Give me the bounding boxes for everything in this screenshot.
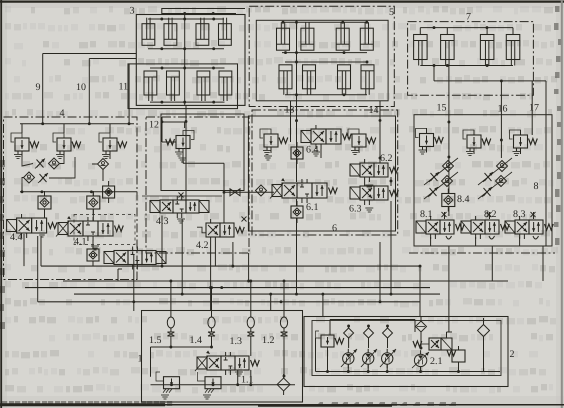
wire [49,157,75,178]
accumulator 1.4 [208,317,215,328]
x mark [442,212,447,217]
valve 6.1 [272,185,282,197]
wire [21,124,23,129]
bus wire [41,265,420,267]
wire [150,347,152,377]
bus wire [25,287,430,289]
valve 6.3 [350,187,360,199]
junction [447,156,450,159]
shutoff valve [230,189,235,196]
junction [295,21,298,24]
swash arrow [361,349,377,367]
svg-text:11: 11 [119,82,129,93]
wire [60,157,64,164]
cylinder box7 1 [414,35,428,60]
wire [89,58,136,60]
wire [21,183,23,192]
cylinder box3 bottom 3 [197,71,210,95]
power unit box 1 [142,311,303,403]
svg-text:17: 17 [529,103,539,114]
cylinder box3 top 1 [142,24,155,46]
manifold box 8 [414,115,552,246]
wire [424,158,458,185]
wire [433,66,435,81]
wire [148,48,224,50]
reducing valve 1b [205,377,221,389]
valve 4.2 [197,227,206,233]
check valve [442,176,453,187]
wire [330,319,415,321]
svg-text:4.2: 4.2 [196,240,209,251]
svg-text:1.5: 1.5 [149,335,162,346]
check valve [98,159,109,170]
wire [420,27,513,29]
wire [478,158,512,185]
tank symbol [91,245,99,247]
wire [448,317,450,333]
svg-text:8: 8 [534,181,539,192]
enclosure box 3 [136,15,245,106]
wire [162,141,176,143]
cylinder box3 top 2 [164,24,177,46]
x mark [242,217,247,222]
svg-text:4.1: 4.1 [74,237,87,248]
swash arrow [341,349,357,367]
cylinder box3 top 3 [196,24,209,46]
manifold box 8 outer [409,252,555,254]
filter [277,378,290,391]
wire [419,266,421,316]
enclosure box 3 top [162,9,245,15]
svg-text:4: 4 [60,108,65,119]
filter 2a [344,328,354,338]
valve 4.3 [150,201,160,213]
check valve sq [87,196,100,209]
wire [296,218,298,294]
wire [448,133,450,194]
relief valve left-1 [15,138,29,151]
check valve [497,161,508,172]
wire [285,94,367,96]
wire [170,281,172,317]
relief valve 8-3 [514,135,528,148]
wire [379,134,381,163]
wire [379,242,381,302]
tank symbol [365,207,373,209]
wire [270,294,272,311]
wire [512,28,514,35]
tank symbol [179,157,187,159]
wire [22,157,33,166]
accumulator 1.5 [167,317,174,328]
svg-text:1.3: 1.3 [230,336,243,347]
cylinder box5 bottom 1 [279,65,292,89]
manifold box 4 [4,117,138,280]
cylinder box5 top 4 [360,28,373,50]
check valve sq [291,206,303,218]
wire [23,234,25,266]
junction [183,12,186,15]
wire [419,28,421,35]
tank symbol [38,232,46,234]
wire [448,246,450,317]
wire [232,242,234,266]
wire [43,53,137,55]
cylinder box3 bottom 1 [144,71,157,95]
wire [128,64,130,124]
wire [329,320,331,336]
wire [150,101,225,103]
wire [185,105,187,200]
wire [348,325,350,327]
accumulator 1.3 [247,317,254,328]
pump 2a [343,353,354,364]
wire [531,81,533,135]
wire [20,123,134,125]
svg-text:6.1: 6.1 [306,202,319,213]
wire [117,269,119,281]
relief valve 8-2 [467,135,481,148]
cylinder box3 bottom 4 [219,71,232,95]
pump 2c [382,353,393,364]
pump 2.1 [414,354,426,366]
wire [322,294,324,316]
wire [109,157,111,159]
wire [214,242,216,266]
power unit box 2 [304,317,508,387]
wire [150,67,225,69]
wire [40,236,42,266]
wire [282,52,367,54]
bus wire [63,280,508,282]
svg-text:12: 12 [149,120,159,131]
check valve sq [103,186,115,198]
reducing valve 1a [164,377,180,389]
svg-text:8.1: 8.1 [420,209,433,220]
accumulator 1.2 [280,317,287,328]
svg-text:1: 1 [138,354,143,365]
cylinder box5 top 3 [336,28,349,50]
wire [92,240,94,244]
junction [40,190,43,193]
wire [296,101,298,182]
manifold box 6 [252,110,398,235]
power unit box 2 inner [312,321,501,376]
svg-text:15: 15 [437,103,447,114]
valve 8.2 [461,221,471,233]
swash arrow [412,352,429,368]
svg-text:6.3: 6.3 [349,204,362,215]
valve 6.2 [350,164,360,176]
check valve sq [38,196,51,209]
wire [446,332,448,338]
throttle valve [37,160,44,168]
junction [161,120,164,123]
wire [184,14,186,106]
wire [223,163,225,223]
svg-text:2: 2 [510,349,515,360]
tank hook [533,236,539,239]
spring box [452,350,465,362]
relief valve left-2 [57,138,71,151]
check valve [496,176,507,187]
wire [44,192,46,196]
enclosure box 5 [249,6,394,106]
filter 2b [364,328,374,338]
x mark [179,193,184,198]
svg-text:1.2: 1.2 [262,335,275,346]
wire [478,172,512,199]
relief valve 8-1 [420,134,434,147]
check valve sq [291,147,303,159]
valve row2 [104,252,114,264]
wire [224,191,274,193]
pump 2b [363,353,374,364]
wire [347,365,349,372]
wire [379,101,381,134]
tank hook [489,236,495,239]
bus wire [38,301,420,303]
wire [183,162,224,164]
bus wire [74,293,440,295]
cylinder box7 2 [441,35,455,60]
junction [433,26,436,29]
cylinder box7 4 [506,35,520,60]
wire [148,18,224,20]
check valve [256,185,267,196]
page frame [0,1,564,3]
filter 2c [383,328,393,338]
wire [430,237,432,246]
wire [210,242,212,311]
wire [434,80,546,82]
wire [444,212,446,219]
svg-text:16: 16 [498,104,508,115]
junction [41,122,44,125]
cylinder box7 3 [480,35,494,60]
wire [448,207,450,217]
manifold box 12 [146,117,249,253]
bus wire [20,191,137,193]
svg-text:6.4: 6.4 [306,145,319,156]
relief valve 6-right [352,134,366,147]
junction [161,265,164,268]
wire [500,135,502,158]
wire [283,281,285,317]
wire [151,346,212,348]
throttle valve [40,174,47,182]
x mark [531,212,536,217]
filter [416,321,427,332]
wire [542,246,544,281]
tank symbol [264,155,272,157]
tank symbol [312,151,320,153]
valve 4.4 [7,220,17,232]
wire [390,177,392,186]
wire [446,28,448,35]
wire [182,155,184,164]
valve 6.4 [301,131,311,143]
check valve 8.4 [442,194,455,207]
wire [420,65,513,67]
wire [181,220,183,295]
wire [170,343,172,347]
bus wire [151,384,296,386]
wire [161,216,163,267]
relief valve left-3 [103,138,117,151]
wire [426,128,428,133]
wire [44,209,46,218]
wire [424,172,458,199]
pilot line [142,195,222,197]
junction [223,191,226,194]
wire [237,370,239,385]
wire [248,253,250,281]
wire [161,117,163,142]
throttle valve [431,173,438,181]
valve 1.1 [197,357,207,369]
check valve [49,158,60,169]
wire [448,66,450,134]
junction [170,383,173,386]
wire [22,178,24,184]
svg-text:6.2: 6.2 [380,153,393,164]
wire [420,332,422,348]
wire [296,199,298,206]
junction [347,370,350,373]
manifold box 12 inner [161,114,244,191]
throttle valve [484,188,491,196]
tank hook [446,236,452,239]
svg-text:1.4: 1.4 [190,335,203,346]
wire [486,28,488,35]
relief valve 6-left [264,134,278,147]
junction [247,280,250,283]
manifold box 6 inner [248,116,395,231]
tank symbol [235,371,243,373]
wire [211,288,213,317]
check valve [443,161,454,172]
wire [320,149,322,158]
enclosure box 5 inner [256,20,388,101]
svg-text:5: 5 [389,7,394,18]
tank symbol [365,184,373,186]
valve 4.1 [58,223,68,235]
wire [315,338,317,372]
svg-text:2.1: 2.1 [430,356,443,367]
wire [290,101,292,142]
wire [296,20,298,101]
valve 8.1 [416,221,426,233]
throttle valve [430,188,437,196]
wire [133,255,135,311]
enclosure box 7 [408,22,534,96]
svg-text:7: 7 [466,12,471,23]
wire [285,61,367,63]
relief valve 12 [176,136,190,149]
valve 8.3 [505,221,515,233]
wire [491,246,493,281]
svg-text:10: 10 [76,82,86,93]
svg-text:9: 9 [36,82,41,93]
wire [483,348,485,372]
cylinder box5 top 2 [301,28,314,50]
cylinder box5 bottom 4 [361,65,374,89]
wire [545,81,547,246]
svg-text:6: 6 [332,223,337,234]
wire [327,347,329,372]
relief valve 2-left [321,335,334,347]
svg-text:8.2: 8.2 [484,209,497,220]
wire [282,21,367,23]
valve 2-sol [429,338,441,350]
junction [379,157,382,160]
wire [37,236,39,302]
wire [42,54,44,124]
wire [390,201,392,294]
pilot box [74,215,135,245]
cylinder box3 top 4 [219,24,232,46]
wire [162,13,236,15]
cylinder box5 bottom 2 [303,65,316,89]
tank symbol [177,218,185,220]
cylinder box5 top 1 [277,28,290,50]
wire [500,81,502,135]
x mark [487,212,492,217]
svg-text:4.4: 4.4 [10,232,23,243]
cylinder box3 bottom 2 [167,71,180,95]
svg-text:8.4: 8.4 [457,194,470,205]
junction [379,119,382,122]
check valve [24,172,35,183]
wire [296,159,298,178]
bus wire [316,371,501,373]
svg-text:8.3: 8.3 [513,209,526,220]
swash arrow [380,349,396,367]
wire [88,59,90,124]
enclosure box 3 inner [128,64,238,109]
wire [250,281,252,317]
filter right [478,325,490,337]
svg-text:3: 3 [130,6,135,17]
check valve sq [87,249,99,261]
wire [21,129,23,133]
cylinder box5 bottom 3 [338,65,351,89]
throttle valve [485,173,492,181]
